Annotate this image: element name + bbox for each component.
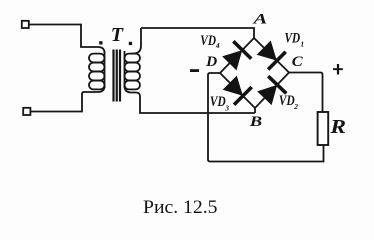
svg-text:B: B [249, 114, 263, 130]
svg-text:VD: VD [279, 93, 295, 109]
svg-text:T: T [111, 24, 124, 46]
svg-text:A: A [252, 11, 267, 27]
svg-text:2: 2 [293, 102, 298, 111]
svg-text:1: 1 [300, 39, 304, 48]
svg-text:D: D [205, 54, 218, 70]
svg-text:VD: VD [285, 30, 301, 46]
svg-text:VD: VD [210, 94, 226, 110]
svg-text:VD: VD [200, 33, 216, 49]
svg-text:3: 3 [224, 103, 229, 112]
svg-text:4: 4 [215, 41, 220, 50]
svg-text:Рис. 12.5: Рис. 12.5 [143, 197, 218, 218]
svg-text:C: C [292, 54, 303, 70]
svg-text:R: R [329, 116, 346, 138]
